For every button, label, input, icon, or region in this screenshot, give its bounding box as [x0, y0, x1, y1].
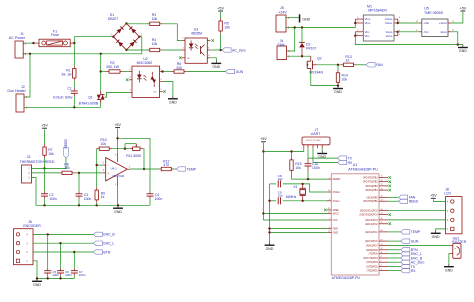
svg-text:(ADC3)PC3: (ADC3)PC3	[365, 219, 378, 222]
svg-text:GND: GND	[445, 268, 453, 272]
svg-text:15: 15	[381, 176, 383, 178]
svg-text:100n: 100n	[65, 273, 72, 277]
wire op-amp V- to rail	[117, 187, 119, 206]
capacitor C6	[57, 271, 64, 273]
capacitor C8	[278, 180, 280, 187]
junction C10 bottom	[307, 178, 309, 180]
svg-text:XTAL2: XTAL2	[333, 191, 341, 194]
wire R11 to output	[143, 149, 144, 169]
svg-text:100n: 100n	[49, 197, 57, 201]
svg-text:22p: 22p	[278, 194, 283, 198]
+5V power at J8	[430, 194, 437, 199]
svg-text:-Vout: -Vout	[440, 30, 447, 34]
wire U5 +Vout to +5V	[451, 12, 463, 23]
connector J2 Gun Heater	[16, 94, 24, 112]
wire feedback vertical	[96, 149, 98, 188]
svg-text:IRFZ44N: IRFZ44N	[309, 71, 323, 75]
svg-text:100n: 100n	[155, 197, 163, 201]
svg-text:ATMEGA328P-PU: ATMEGA328P-PU	[348, 168, 378, 172]
junction R2/Q1 node	[100, 70, 102, 72]
svg-text:(SCK)PB5: (SCK)PB5	[367, 196, 379, 199]
svg-text:+5V RX TX GND: +5V RX TX GND	[306, 140, 322, 142]
svg-text:(ADC1)PC1: (ADC1)PC1	[365, 231, 378, 234]
wire UART RX pin down	[312, 148, 314, 162]
svg-text:GND: GND	[169, 101, 177, 105]
junction AVCC branch	[262, 212, 264, 214]
svg-text:DB207: DB207	[108, 17, 119, 21]
svg-text:UART: UART	[311, 132, 322, 136]
resistor R7	[43, 144, 46, 158]
svg-text:330, 1W: 330, 1W	[106, 65, 120, 69]
svg-text:4N25M: 4N25M	[191, 32, 202, 36]
svg-text:(AIN0)PD6: (AIN0)PD6	[366, 249, 378, 252]
no-connect U3 left pin	[179, 57, 182, 60]
wire +24V rail to M1	[286, 23, 355, 28]
wire U1 pin to ENC_L label	[388, 253, 401, 255]
svg-text:100n: 100n	[84, 197, 92, 201]
wire to R2	[101, 71, 107, 73]
junction encoder ground	[36, 277, 38, 279]
svg-text:C1: C1	[67, 86, 71, 90]
wire rail to R15	[291, 152, 293, 158]
svg-text:RX: RX	[411, 269, 416, 273]
wire C8 to crystal	[283, 183, 303, 185]
svg-text:23: 23	[381, 239, 383, 241]
svg-text:TEMP: TEMP	[411, 230, 421, 234]
svg-text:BTA41-600B: BTA41-600B	[79, 102, 99, 106]
junction C9 on ground vertical	[268, 200, 270, 202]
svg-text:(PCINT2)PB2: (PCINT2)PB2	[363, 181, 378, 184]
svg-text:(ADC5/SCL)PC5: (ADC5/SCL)PC5	[360, 210, 379, 213]
wire node to C2	[44, 168, 46, 191]
wire op-amp output to R12	[130, 168, 158, 170]
net label GUN at MCU	[401, 239, 419, 243]
wire +5V stem	[262, 143, 264, 152]
svg-text:9: 9	[329, 199, 330, 201]
capacitor C2	[41, 194, 48, 196]
net label ENC_B	[93, 232, 115, 236]
svg-text:+: +	[108, 172, 110, 176]
wire U2 pin1 to R6	[163, 71, 172, 73]
wire UART TX pin down	[307, 148, 309, 158]
resistor R3	[147, 22, 163, 25]
wire to VCC pin	[263, 219, 327, 221]
svg-text:39, 1w: 39, 1w	[61, 73, 72, 77]
junction M1 Vin- pins	[354, 35, 356, 37]
svg-text:10k: 10k	[100, 142, 106, 146]
wire TX row	[308, 157, 338, 159]
wire U1 pin to REED label	[388, 200, 399, 202]
resistor R10	[96, 147, 112, 150]
junction N to gun heater	[29, 53, 31, 55]
wire U1 pin to ENC_B label	[388, 257, 401, 259]
junction +5V branch	[116, 137, 118, 139]
svg-text:27: 27	[381, 213, 383, 215]
trimmer R11 500K	[125, 144, 143, 151]
no-connect U2 pin3	[163, 90, 166, 93]
svg-text:5: 5	[381, 260, 382, 262]
wire XTAL1 row	[270, 200, 277, 202]
triac Q1 BTA41-600B	[97, 91, 107, 103]
wire down to triac Q1 A2	[100, 72, 102, 91]
svg-text:+5V: +5V	[260, 137, 267, 141]
svg-text:14: 14	[381, 199, 383, 201]
wire SCL row to J8 pin3	[388, 210, 446, 212]
svg-text:10: 10	[328, 190, 330, 192]
wire U1 pin to FAN label	[388, 196, 399, 198]
svg-text:20: 20	[328, 212, 330, 214]
svg-text:(TXD)PD1: (TXD)PD1	[367, 270, 379, 273]
resistor R14	[336, 70, 339, 85]
junction R11 wiper tie	[124, 148, 126, 150]
connector J7 UART	[302, 137, 330, 145]
ground at encoder	[32, 278, 42, 287]
wire U3 collector to AC_Zero	[210, 49, 222, 51]
svg-text:19: 19	[381, 196, 383, 198]
svg-text:18: 18	[381, 188, 383, 190]
wire J2 pin2 to triac Q1 A1	[24, 106, 101, 108]
svg-text:+Vin: +Vin	[423, 21, 429, 25]
svg-text:BUZZER: BUZZER	[452, 240, 466, 244]
optocoupler U2 MOC3052	[132, 66, 160, 97]
svg-text:AC Power: AC Power	[9, 36, 26, 40]
wire +5V down to VCC	[262, 152, 264, 221]
wire R5 to AC_Zero node	[220, 34, 222, 50]
svg-text:(ADC0)PC0: (ADC0)PC0	[365, 240, 378, 243]
wire +5V to R5	[220, 12, 222, 18]
svg-text:NC: NC	[154, 92, 158, 94]
junction inverting node	[96, 164, 98, 166]
svg-text:ENCODER: ENCODER	[23, 224, 41, 228]
fuse F1	[36, 39, 73, 47]
buzzer SG1	[450, 243, 461, 258]
junction crystal top	[302, 183, 304, 185]
svg-text:0.01uF, 600v: 0.01uF, 600v	[53, 96, 73, 100]
wire +5V branch to C4	[118, 138, 150, 191]
junction M1 Vout+ pins	[397, 22, 399, 24]
wire J4 pin2 to Q2 drain	[287, 55, 311, 57]
svg-text:XTAL1: XTAL1	[333, 200, 341, 203]
net label AC_Zero at MCU	[401, 260, 425, 264]
svg-text:MP1584EN: MP1584EN	[368, 9, 387, 13]
op-amp V+ pin stub	[117, 152, 119, 162]
svg-text:RESET: RESET	[333, 178, 342, 181]
svg-text:TEMP: TEMP	[187, 167, 197, 171]
junction C5 top	[47, 233, 49, 235]
wire U2 pin2 to ground	[163, 82, 173, 96]
svg-text:(PCINT1)PB1: (PCINT1)PB1	[363, 177, 378, 180]
svg-text:+5V: +5V	[217, 6, 224, 10]
converter U5 TME 0505S	[422, 19, 448, 37]
no-connect U3 pin6	[211, 39, 214, 42]
connector J4 FAN	[277, 46, 287, 60]
wire to snubber R1	[73, 43, 75, 66]
wire R12 to TEMP label	[174, 168, 176, 170]
op-amp V- pin stub	[117, 176, 119, 186]
crystal X1 16MHz	[300, 184, 306, 201]
svg-text:GND: GND	[333, 231, 339, 234]
net label REED at MCU	[399, 199, 419, 203]
svg-text:3: 3	[381, 269, 382, 271]
svg-text:R11 500K: R11 500K	[126, 154, 142, 158]
wire J6 pin4 to ENC_R	[33, 233, 93, 235]
svg-text:Vout-: Vout-	[386, 34, 393, 38]
svg-text:+5V: +5V	[430, 194, 437, 198]
svg-text:28: 28	[381, 209, 383, 211]
svg-text:TME 0505S: TME 0505S	[424, 11, 444, 15]
svg-text:1: 1	[329, 177, 330, 179]
wire +5V to R7	[44, 129, 46, 144]
svg-text:GND: GND	[302, 17, 310, 21]
wire M1 Vout- to U5 -Vin	[398, 31, 419, 33]
svg-text:16MHz: 16MHz	[286, 195, 297, 199]
wire R1 to C1	[73, 81, 75, 88]
ground at buzzer	[444, 264, 454, 273]
connector J7 pin stubs	[303, 145, 305, 148]
svg-text:ATMEGA328P-PU: ATMEGA328P-PU	[332, 276, 361, 280]
svg-text:16: 16	[381, 180, 383, 182]
wire buzzer to ground	[449, 254, 450, 264]
svg-text:GND: GND	[318, 155, 326, 159]
wire U2 pin4 to Q1 gate	[107, 92, 130, 97]
svg-text:Gun Heater: Gun Heater	[7, 89, 26, 93]
net label ENC_L at MCU	[401, 252, 422, 256]
net label FAN at MCU	[399, 195, 416, 199]
resistor R1	[73, 66, 76, 81]
junction +5V rail	[262, 150, 264, 152]
wire C1 to neutral return	[73, 96, 75, 107]
svg-text:+5V: +5V	[114, 123, 121, 127]
wire R13 to FAN label	[356, 64, 366, 66]
net label BTN	[93, 250, 110, 254]
junction fuse output node	[73, 42, 75, 44]
svg-text:10k: 10k	[64, 166, 70, 170]
wire J4 pin1 to 24V	[287, 28, 295, 52]
net label BTN at MCU	[401, 248, 418, 252]
wire bridge - to R4	[126, 49, 146, 51]
wire R7 to pin1 node	[44, 158, 46, 168]
wire bridge + to R3	[126, 22, 146, 24]
wire C8/C9 ground vertical	[269, 184, 271, 242]
ground at MCU left	[265, 242, 275, 251]
svg-text:REED: REED	[64, 139, 68, 149]
svg-text:BTN: BTN	[103, 250, 110, 254]
resistor R8	[59, 171, 75, 174]
svg-text:AC_Zero: AC_Zero	[232, 48, 246, 52]
capacitor C7	[71, 271, 78, 273]
svg-text:(XCK/T0)PD4: (XCK/T0)PD4	[363, 257, 378, 260]
svg-text:ENC_L: ENC_L	[103, 241, 114, 245]
wire Q1 A1 to load return	[100, 103, 102, 107]
wire crystal jog to XTAL2 pin	[303, 184, 327, 192]
svg-text:ENC_B: ENC_B	[103, 233, 115, 237]
ground at op-amp rail	[113, 205, 123, 214]
wire M1 Vin- ground run	[355, 36, 463, 45]
junction C3 top	[78, 172, 80, 174]
wire R2 to U2 pin6	[123, 71, 129, 73]
wire 24V to D2 cathode	[301, 28, 303, 43]
junction 24V to D2	[301, 26, 303, 28]
svg-text:(MOSI)PB3: (MOSI)PB3	[365, 185, 378, 188]
junction ground run	[457, 43, 459, 45]
svg-text:GUN: GUN	[236, 70, 244, 74]
junction gnd rows	[268, 227, 270, 229]
wire fuse to bridge D1 AC1	[73, 37, 113, 43]
module M1 MP1584EN	[363, 15, 394, 41]
svg-text:470: 470	[163, 163, 169, 167]
junction crystal bottom	[302, 200, 304, 202]
svg-text:GND: GND	[333, 228, 339, 231]
U1 right pin stubs and labels	[379, 177, 388, 179]
svg-text:Q1: Q1	[88, 95, 93, 99]
svg-text:22: 22	[328, 231, 330, 233]
svg-text:10k: 10k	[224, 25, 230, 29]
svg-text:NC: NC	[187, 58, 191, 60]
svg-text:GND: GND	[459, 49, 467, 53]
svg-text:+5V: +5V	[460, 6, 467, 10]
wire to C5	[47, 234, 49, 268]
svg-text:(ADC2)PC2: (ADC2)PC2	[365, 223, 378, 226]
wire Q2 gate to R13	[317, 64, 341, 66]
op-amp U4.1 MCP602	[106, 158, 128, 181]
svg-text:100n: 100n	[312, 166, 320, 170]
svg-text:100n: 100n	[79, 273, 86, 277]
net label GUN	[226, 69, 244, 73]
wire R3 to U3 pin1	[163, 24, 183, 41]
svg-text:22p: 22p	[278, 177, 283, 181]
wire inverting input	[97, 164, 103, 166]
wire R6 to GUN label	[187, 71, 226, 73]
wire R8 to op-amp pin3	[75, 172, 103, 174]
wire U1 pin to RX label	[388, 270, 401, 272]
wire R10 to R11	[112, 148, 130, 150]
wire M1 Vout+ to U5 +Vin	[398, 22, 419, 24]
wire J6 pin2 to BTN	[33, 251, 93, 253]
U1 left pin stubs and labels	[327, 178, 331, 180]
wire U1 pin to TEMP label	[388, 231, 401, 233]
net label REED	[63, 139, 68, 158]
mosfet Q2 IRFZ44N	[306, 56, 317, 71]
svg-text:VCC: VCC	[333, 219, 338, 222]
wire SDA row to J8 pin2	[388, 219, 446, 221]
resistor R12	[159, 167, 175, 170]
wire C9 to XTAL1 pin	[283, 200, 327, 202]
wire J3 pin1 to REED label	[32, 158, 67, 168]
wire node to C3	[78, 173, 80, 191]
svg-text:U1: U1	[353, 163, 358, 167]
wire U1 pin to AC_Zero label	[388, 261, 401, 263]
capacitor C4	[147, 194, 154, 196]
svg-text:Vin-: Vin-	[365, 34, 370, 38]
wire buzzer row	[388, 245, 450, 247]
net label TEMP	[176, 167, 196, 171]
+5V power at U5	[460, 6, 467, 11]
connector J5 +24V	[276, 15, 286, 32]
svg-text:Vin+: Vin+	[365, 21, 371, 25]
net label TX near UART	[338, 156, 353, 160]
svg-text:MCP602: MCP602	[113, 174, 125, 178]
ground at U3	[211, 61, 221, 70]
ground at U2	[168, 96, 178, 105]
connector J1 AC Power	[15, 41, 23, 58]
+5V power at R5	[217, 6, 224, 11]
svg-text:GND: GND	[114, 210, 122, 214]
svg-text:+24V: +24V	[278, 10, 287, 14]
net label AC_Zero	[222, 48, 246, 52]
ground at J5 (sideways)	[299, 14, 311, 22]
net label RX at MCU	[401, 268, 417, 272]
svg-text:(T1)PD5: (T1)PD5	[369, 253, 379, 256]
wire U5 -Vout to ground run	[451, 32, 458, 45]
wire neutral line from J1 pin2	[26, 53, 142, 55]
wire +5V to op-amp V+	[117, 129, 119, 153]
svg-text:-Vin: -Vin	[423, 30, 429, 34]
svg-text:(INT1)PD3: (INT1)PD3	[366, 261, 378, 264]
junction C6 top	[59, 242, 61, 244]
svg-text:GND: GND	[33, 283, 41, 287]
wire bridge AC2 to neutral	[139, 37, 141, 54]
connector J3 THERMISTOR+REED	[22, 165, 32, 183]
ground at fan driver	[333, 86, 343, 95]
diode D2 FR107	[299, 42, 305, 47]
svg-text:J3: J3	[27, 155, 31, 159]
junction drain node	[301, 55, 303, 57]
wire XTAL2 row	[270, 183, 277, 185]
ground at J8	[431, 230, 441, 239]
junction on L line	[32, 42, 34, 44]
svg-text:6: 6	[381, 256, 382, 258]
wire J8 pin1 to ground	[436, 229, 446, 231]
wire to C6	[60, 243, 62, 268]
svg-text:7: 7	[329, 218, 330, 220]
wire U1 pin to TX label	[388, 266, 401, 268]
net label TEMP at MCU	[401, 230, 421, 234]
junction M1 Vout- pins	[397, 31, 399, 33]
wire N down to J2 pin1	[24, 54, 30, 97]
net label ENC_B at MCU	[401, 256, 423, 260]
svg-text:U4.1: U4.1	[111, 167, 118, 171]
wire J1 pin1 to fuse F1	[26, 42, 36, 44]
junction AC_Zero node	[219, 49, 221, 51]
connector J8 LCD	[446, 197, 463, 234]
junction output node	[143, 168, 145, 170]
wire to C7	[73, 252, 75, 268]
svg-text:(MISO)PB4: (MISO)PB4	[365, 189, 378, 192]
+5V power at MCU	[260, 137, 267, 142]
svg-text:10k: 10k	[48, 152, 54, 156]
wire +5V to J8 pin4	[433, 199, 445, 201]
svg-text:25: 25	[381, 222, 383, 224]
resistor R13	[341, 63, 357, 66]
junction gate node	[337, 64, 339, 66]
capacitor C9	[278, 197, 280, 204]
svg-text:GUN: GUN	[411, 239, 419, 243]
capacitor C3	[76, 194, 83, 196]
svg-text:LCD: LCD	[444, 191, 451, 195]
svg-text:4: 4	[381, 265, 382, 267]
resistor R2	[106, 70, 123, 73]
svg-text:330: 330	[176, 66, 182, 70]
svg-text:MOC3052: MOC3052	[137, 61, 153, 65]
svg-text:(INT0)PD2: (INT0)PD2	[366, 266, 378, 269]
junction M1 Vin+ pins	[354, 22, 356, 24]
wire U3 emitter to ground	[210, 58, 216, 61]
svg-text:11: 11	[381, 252, 383, 254]
wire R15 to RESET	[292, 173, 327, 179]
wire to AVCC pin	[263, 212, 327, 214]
svg-text:FAN: FAN	[376, 63, 383, 67]
svg-text:Q2: Q2	[317, 56, 322, 60]
